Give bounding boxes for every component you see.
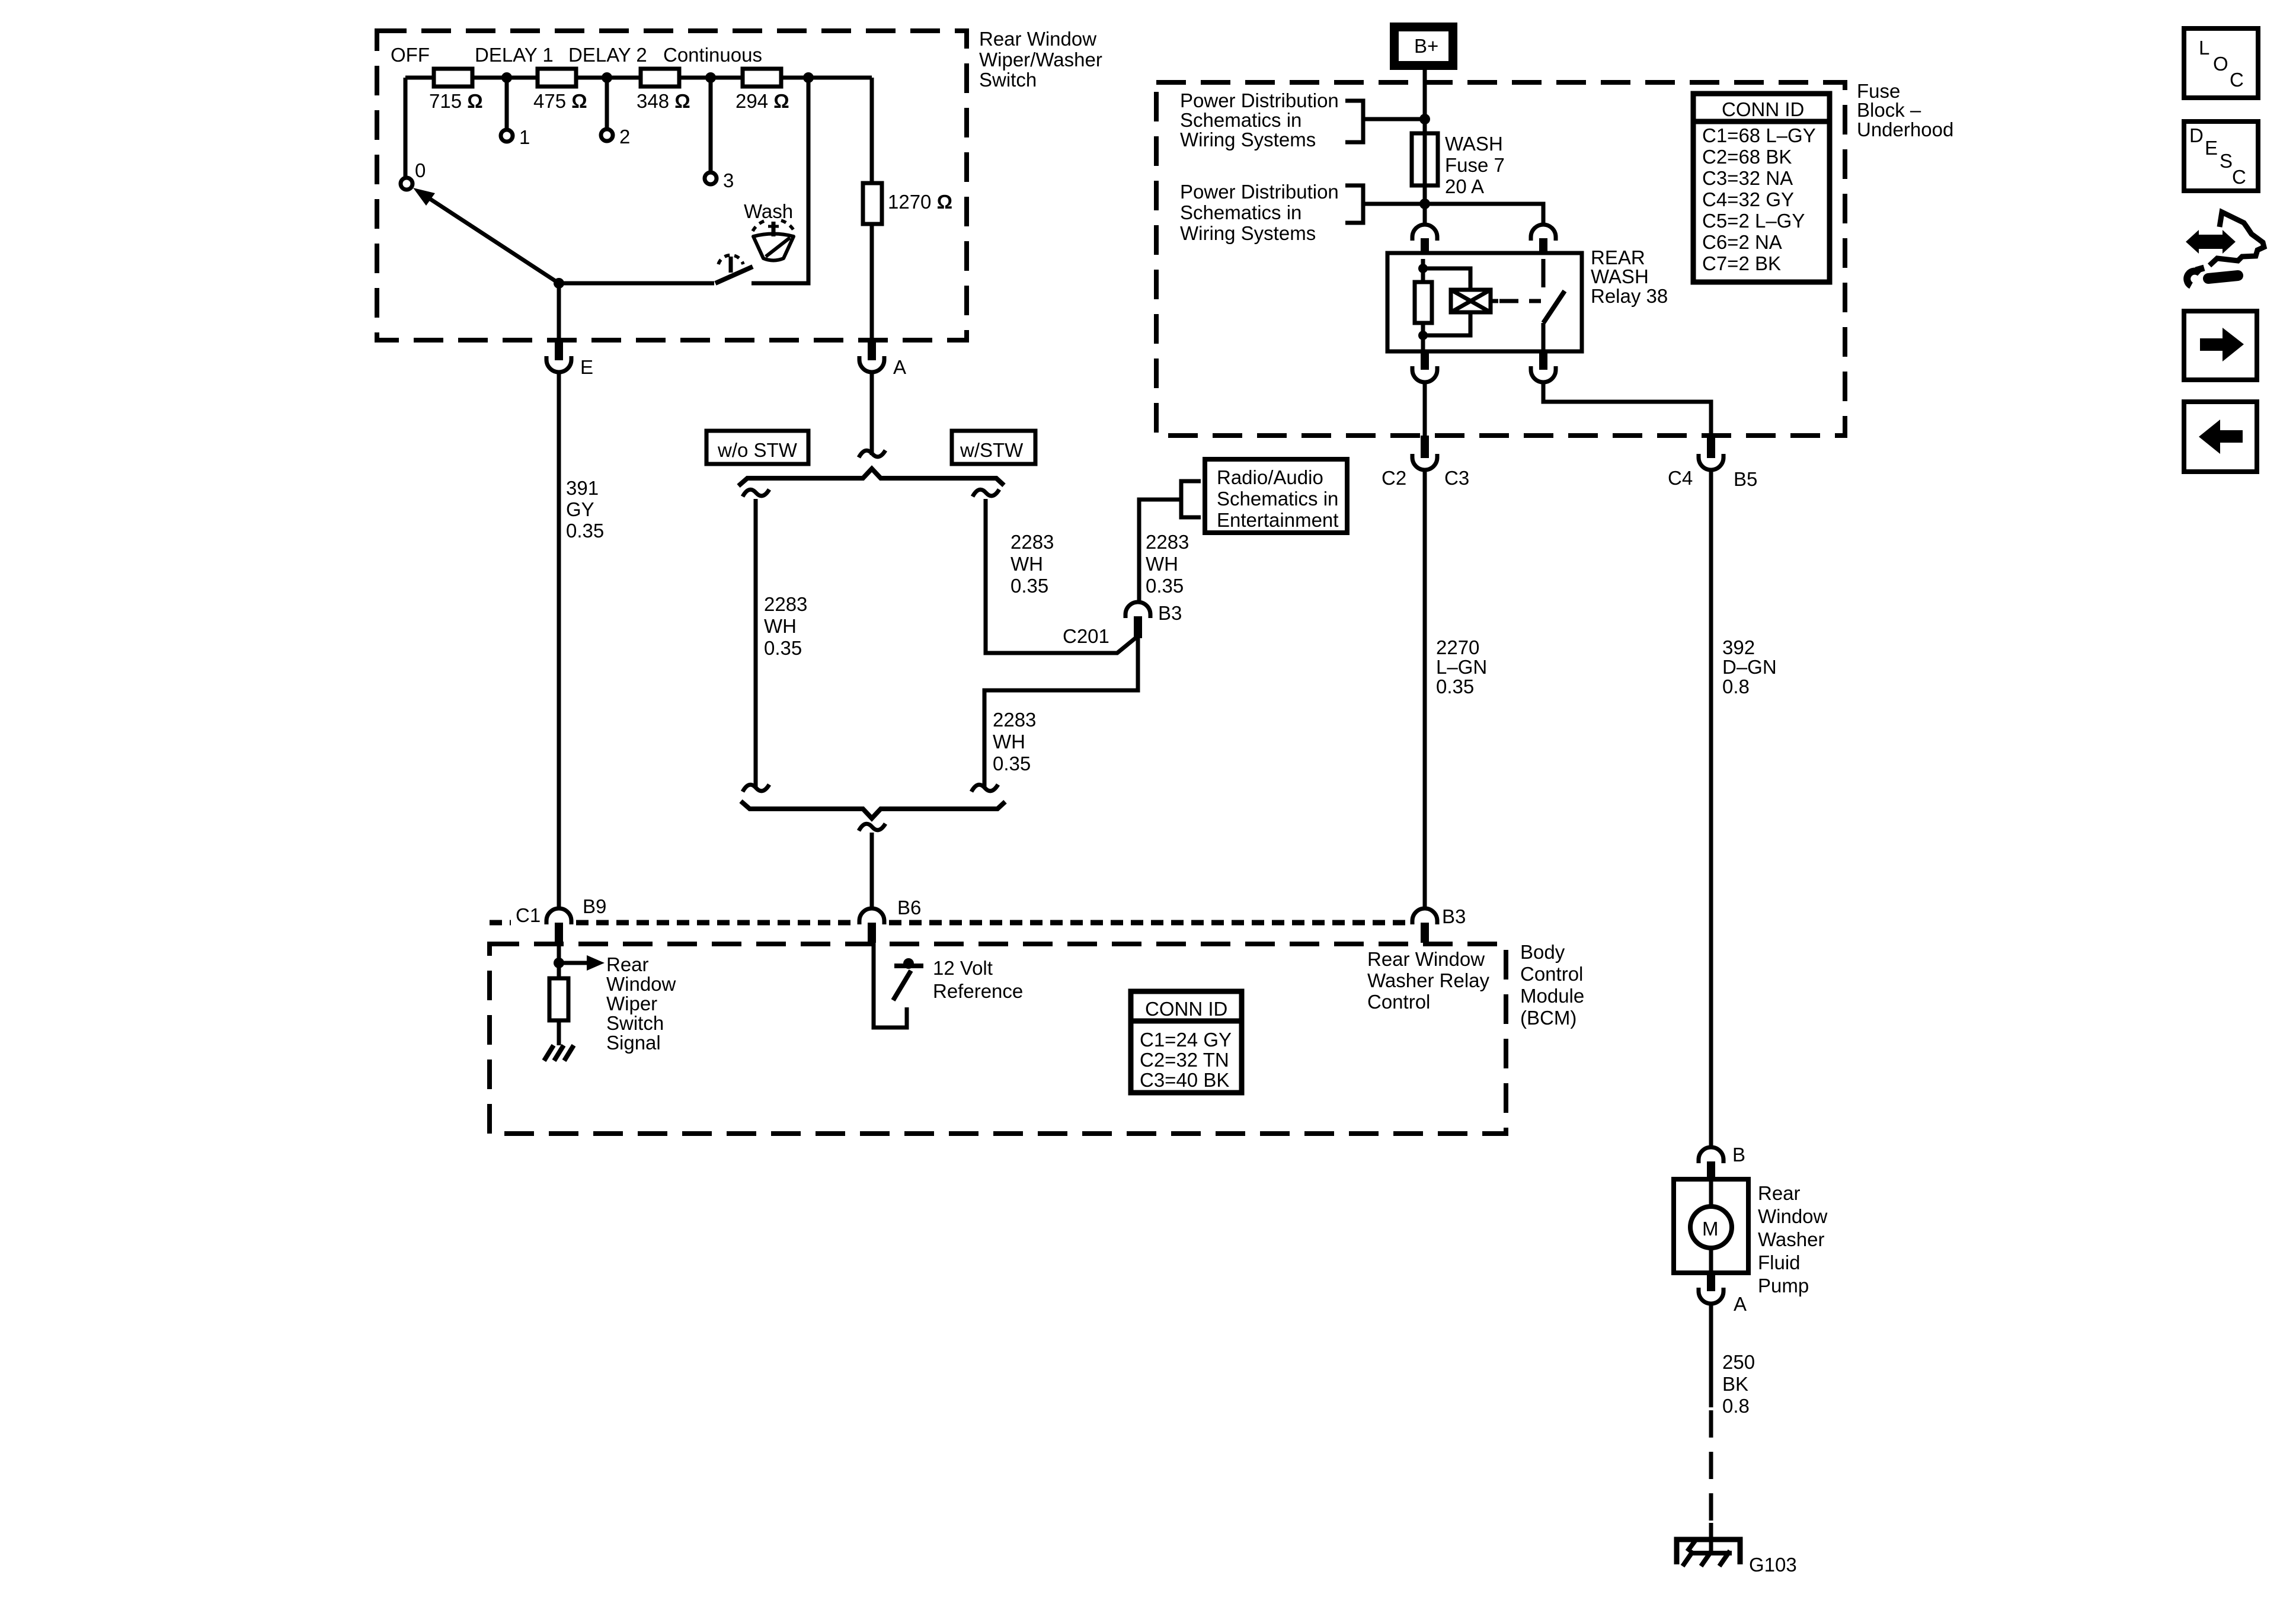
svg-text:Pump: Pump — [1758, 1275, 1809, 1297]
wash switch lever (open) — [715, 267, 753, 283]
svg-text:WASH: WASH — [1591, 265, 1649, 287]
wire: C2/C3 down to BCM B3 — [1423, 470, 1427, 909]
svg-text:Power Distribution: Power Distribution — [1180, 89, 1339, 111]
wire break squiggle above upper brace — [859, 450, 885, 457]
fuse block underhood box — [1156, 80, 1953, 436]
svg-text:S: S — [2220, 150, 2233, 172]
svg-text:C2=68 BK: C2=68 BK — [1702, 146, 1792, 168]
svg-text:A: A — [1734, 1293, 1747, 1315]
connector C4/B5 — [1668, 436, 1757, 490]
rear wash relay 38 box — [1387, 247, 1668, 351]
rotary wiper arm with arrowhead to contact 0 — [413, 188, 559, 283]
svg-text:L: L — [2199, 37, 2209, 59]
svg-text:WH: WH — [764, 615, 797, 637]
back arrow button — [2184, 402, 2257, 472]
connector A (pump) — [1699, 1273, 1747, 1315]
upper option brace — [738, 469, 1004, 486]
svg-text:B6: B6 — [897, 897, 921, 918]
wire: 1270 resistor to connector A — [870, 224, 874, 338]
resistor 715 ohm — [429, 69, 483, 112]
bracket to radio/audio box — [1181, 481, 1201, 517]
svg-text:0.35: 0.35 — [993, 753, 1031, 774]
svg-text:B: B — [1732, 1144, 1745, 1166]
relay switch lever — [1543, 291, 1565, 323]
svg-text:348 Ω: 348 Ω — [637, 90, 690, 112]
svg-text:E: E — [580, 356, 593, 378]
node after 715 with stub to contact 1 — [501, 72, 530, 148]
svg-text:E: E — [2205, 137, 2218, 159]
junction node of wiper arm — [554, 278, 564, 289]
wire label 2283 WH 0.35 (w/STW lower) — [993, 709, 1036, 774]
svg-text:O: O — [2213, 53, 2228, 75]
w/o STW option box — [706, 431, 808, 464]
pump internal wires — [1709, 1179, 1713, 1273]
svg-text:CONN ID: CONN ID — [1722, 98, 1804, 120]
svg-text:0.35: 0.35 — [566, 520, 604, 542]
wire label 2283 WH 0.35 (w/STW upper) — [1011, 531, 1054, 597]
svg-text:Reference: Reference — [933, 980, 1023, 1002]
svg-text:Window: Window — [606, 973, 676, 995]
lower option brace — [741, 801, 1005, 818]
svg-text:250: 250 — [1722, 1351, 1755, 1373]
svg-text:A: A — [893, 356, 906, 378]
svg-text:Switch: Switch — [606, 1012, 664, 1034]
w/STW option box — [952, 431, 1035, 464]
node at B+ tap 1 — [1419, 114, 1430, 124]
svg-text:C: C — [2230, 69, 2244, 91]
wire: C201 stub down and left to w/STW lower branch — [984, 637, 1138, 788]
conn id table (fuse block) — [1693, 94, 1830, 282]
svg-text:B5: B5 — [1734, 468, 1757, 490]
svg-text:C4=32 GY: C4=32 GY — [1702, 188, 1794, 210]
svg-text:WH: WH — [1146, 553, 1178, 575]
svg-text:C7=2 BK: C7=2 BK — [1702, 252, 1781, 274]
svg-text:Schematics in: Schematics in — [1180, 109, 1302, 131]
squiggle at top of w/STW branch — [973, 489, 999, 497]
svg-text:C3=32 NA: C3=32 NA — [1702, 167, 1793, 189]
svg-text:C1=68 L–GY: C1=68 L–GY — [1702, 124, 1816, 146]
relay linkage dashed line — [1499, 299, 1541, 303]
relay switch output pin (bottom right) — [1531, 351, 1556, 382]
svg-text:C5=2 L–GY: C5=2 L–GY — [1702, 210, 1805, 232]
svg-text:C4: C4 — [1668, 467, 1693, 489]
svg-text:Block –: Block – — [1857, 99, 1921, 121]
relay coil output pin (bottom left) — [1412, 351, 1437, 382]
BCM wiper switch signal input — [554, 943, 676, 1054]
wire: brace to BCM B6 — [870, 833, 874, 909]
svg-text:w/STW: w/STW — [960, 439, 1024, 461]
schematic jump icon (arrow and wrench) — [2186, 212, 2264, 286]
svg-text:G103: G103 — [1749, 1554, 1797, 1576]
wire label 391 GY 0.35 — [566, 477, 604, 542]
svg-text:C3: C3 — [1444, 467, 1469, 489]
svg-text:Wiring Systems: Wiring Systems — [1180, 222, 1316, 244]
svg-text:C2: C2 — [1382, 467, 1406, 489]
svg-text:Control: Control — [1520, 963, 1583, 985]
wire: w/STW branch upper segment to C201 — [986, 499, 1137, 653]
internal ground hashes — [544, 1045, 574, 1061]
connector C1 B9 — [516, 895, 606, 943]
svg-text:3: 3 — [723, 169, 734, 191]
svg-text:B3: B3 — [1442, 905, 1466, 927]
svg-text:1270 Ω: 1270 Ω — [888, 191, 952, 213]
svg-text:Wiper: Wiper — [606, 993, 657, 1014]
motor M circle — [1690, 1206, 1732, 1248]
svg-text:2283: 2283 — [1146, 531, 1189, 553]
svg-text:12 Volt: 12 Volt — [933, 957, 993, 979]
svg-text:2283: 2283 — [993, 709, 1036, 731]
wire label 392 D-GN 0.8 — [1722, 636, 1777, 697]
svg-text:DELAY 2: DELAY 2 — [568, 44, 647, 66]
rear window wiper/washer switch box — [377, 28, 1102, 340]
node after 294 — [803, 72, 814, 83]
body control module dashed box — [490, 941, 1584, 1134]
relay switch pin connector (top right) — [1531, 225, 1556, 259]
svg-text:Relay 38: Relay 38 — [1591, 285, 1668, 307]
svg-text:715 Ω: 715 Ω — [429, 90, 483, 112]
svg-text:C: C — [2232, 166, 2246, 188]
svg-text:Rear Window: Rear Window — [1367, 948, 1485, 970]
BCM pull resistor — [549, 978, 568, 1020]
svg-text:2283: 2283 — [764, 593, 807, 615]
svg-text:Rear: Rear — [606, 953, 649, 975]
forward arrow button — [2184, 311, 2257, 380]
svg-text:Fuse 7: Fuse 7 — [1445, 154, 1505, 176]
svg-text:M: M — [1702, 1218, 1719, 1240]
node after 348 with stub to contact 3 — [705, 72, 734, 191]
relay coil box with X — [1451, 290, 1498, 312]
squiggle below lower brace — [859, 824, 885, 831]
connector E (switch pin) — [546, 338, 593, 378]
svg-text:Radio/Audio: Radio/Audio — [1217, 466, 1323, 488]
svg-text:294 Ω: 294 Ω — [736, 90, 789, 112]
wire: junction to wash switch pivot — [559, 281, 714, 286]
wiper blade icon — [753, 220, 794, 261]
wash switch fixed contact wire to ladder end — [752, 78, 808, 283]
svg-text:2: 2 — [619, 126, 630, 148]
svg-text:D–GN: D–GN — [1722, 656, 1777, 678]
LOC icon button — [2184, 28, 2258, 98]
svg-text:C3=40 BK: C3=40 BK — [1140, 1069, 1229, 1091]
svg-text:1: 1 — [519, 126, 530, 148]
wire: relay switch output right and down to C4/B5 — [1543, 383, 1711, 436]
squiggle at top of w/o STW branch — [743, 489, 769, 497]
relay switch contact wires — [1542, 259, 1546, 351]
svg-text:0.35: 0.35 — [1011, 575, 1048, 597]
wire: pump A down — [1709, 1305, 1713, 1407]
node after 475 with stub to contact 2 — [601, 72, 630, 148]
svg-text:Schematics in: Schematics in — [1217, 488, 1338, 510]
12 volt reference circuit — [874, 943, 1023, 1028]
svg-text:B+: B+ — [1414, 35, 1438, 57]
wire: ladder to 1270 resistor — [870, 78, 874, 183]
svg-text:Underhood: Underhood — [1857, 119, 1953, 140]
svg-text:L–GN: L–GN — [1436, 656, 1487, 678]
svg-text:Module: Module — [1520, 985, 1584, 1007]
dashed ground wire — [1709, 1410, 1713, 1523]
connector C2/C3 — [1382, 436, 1469, 489]
svg-text:0.8: 0.8 — [1722, 676, 1750, 697]
contact 0 — [401, 159, 426, 190]
svg-text:WASH: WASH — [1445, 133, 1503, 155]
node at B+ tap 2 — [1419, 199, 1430, 209]
svg-text:0.8: 0.8 — [1722, 1395, 1750, 1417]
connector A (switch pin) — [859, 338, 906, 378]
svg-text:B3: B3 — [1158, 602, 1182, 624]
wire: relay coil output to C2/C3 — [1423, 383, 1427, 436]
svg-text:OFF: OFF — [391, 44, 430, 66]
relay internal node top — [1418, 264, 1428, 273]
svg-text:Wiring Systems: Wiring Systems — [1180, 129, 1316, 151]
svg-text:Washer Relay: Washer Relay — [1367, 969, 1490, 991]
connector B (pump) — [1699, 1144, 1745, 1181]
relay internal node bottom — [1418, 331, 1428, 340]
svg-text:GY: GY — [566, 498, 594, 520]
DESC icon button — [2184, 121, 2258, 191]
B+ power symbol — [1390, 23, 1457, 70]
wire: junction down to connector E — [557, 283, 561, 338]
connector C201 B3 (dome and stub) — [1063, 602, 1182, 647]
resistor 1270 ohm — [863, 183, 952, 224]
relay resistor — [1415, 282, 1432, 323]
connector B3 (BCM) — [1412, 905, 1466, 943]
svg-text:Switch: Switch — [979, 69, 1037, 91]
svg-text:2270: 2270 — [1436, 636, 1479, 658]
svg-text:Rear: Rear — [1758, 1182, 1801, 1204]
svg-text:D: D — [2189, 124, 2204, 146]
svg-text:DELAY 1: DELAY 1 — [475, 44, 554, 66]
svg-text:C1=24 GY: C1=24 GY — [1140, 1029, 1232, 1051]
power distribution reference 1 — [1180, 89, 1425, 151]
resistor 475 ohm — [533, 69, 587, 112]
wire into ground — [1709, 1523, 1713, 1553]
svg-text:B9: B9 — [583, 895, 606, 917]
svg-text:C2=32 TN: C2=32 TN — [1140, 1049, 1229, 1071]
svg-text:392: 392 — [1722, 636, 1755, 658]
svg-text:Continuous: Continuous — [663, 44, 762, 66]
svg-text:(BCM): (BCM) — [1520, 1007, 1576, 1029]
svg-text:0: 0 — [415, 159, 426, 181]
relay coil pin connector (top left) — [1412, 225, 1437, 259]
wire: A connector down to option brace — [870, 373, 874, 455]
wire label 2283 WH 0.35 (radio branch) — [1146, 531, 1189, 597]
connector B6 — [859, 897, 921, 943]
svg-text:C201: C201 — [1063, 625, 1109, 647]
svg-text:Signal: Signal — [606, 1032, 661, 1054]
svg-text:WH: WH — [993, 731, 1025, 753]
wire: E connector down to BCM C1/B9 — [557, 373, 561, 909]
resistor 294 ohm — [736, 69, 789, 112]
wire: B+ down into fuse block — [1423, 70, 1427, 133]
svg-text:Wash: Wash — [744, 200, 793, 222]
wire to internal ground — [557, 1020, 561, 1045]
wire label 2270 L-GN 0.35 — [1436, 636, 1487, 697]
svg-text:Power Distribution: Power Distribution — [1180, 181, 1339, 203]
svg-text:0.35: 0.35 — [1146, 575, 1184, 597]
relay coil branch wires — [1423, 259, 1470, 351]
svg-text:0.35: 0.35 — [1436, 676, 1474, 697]
conn id table (BCM) — [1131, 991, 1242, 1093]
svg-text:2283: 2283 — [1011, 531, 1054, 553]
BCM connector face dotted line — [490, 920, 1408, 926]
svg-text:w/o STW: w/o STW — [717, 439, 798, 461]
svg-text:475 Ω: 475 Ω — [533, 90, 587, 112]
svg-text:Wiper/Washer: Wiper/Washer — [979, 49, 1102, 71]
squiggle at bottom of w/STW branch — [971, 785, 998, 792]
svg-text:Control: Control — [1367, 991, 1430, 1013]
svg-text:BK: BK — [1722, 1373, 1748, 1395]
svg-text:391: 391 — [566, 477, 599, 499]
label rear window washer relay control — [1367, 948, 1490, 1013]
power distribution reference 2 — [1180, 181, 1425, 244]
wash spray icon small — [718, 255, 743, 273]
svg-text:Body: Body — [1520, 941, 1565, 963]
resistor 348 ohm — [637, 69, 690, 112]
svg-text:CONN ID: CONN ID — [1145, 998, 1227, 1020]
svg-text:Window: Window — [1758, 1205, 1828, 1227]
svg-text:0.35: 0.35 — [764, 637, 802, 659]
svg-text:C6=2 NA: C6=2 NA — [1702, 231, 1782, 253]
wire: C4/B5 down to pump B — [1709, 470, 1713, 1148]
svg-text:C1: C1 — [516, 904, 541, 926]
wire: radio branch from C201 dome up and right — [1139, 500, 1181, 600]
wire: w/o STW branch — [754, 499, 758, 788]
rear window washer fluid pump box — [1674, 1179, 1828, 1297]
fuse WASH Fuse 7 20 A — [1412, 133, 1505, 197]
svg-text:Entertainment: Entertainment — [1217, 509, 1338, 531]
ground G103 — [1677, 1539, 1797, 1576]
svg-text:Rear Window: Rear Window — [979, 28, 1096, 50]
svg-text:Washer: Washer — [1758, 1228, 1824, 1250]
wire: tap 2 right to relay switch pin — [1425, 204, 1543, 225]
wire label 250 BK 0.8 — [1722, 1351, 1755, 1417]
svg-text:Schematics in: Schematics in — [1180, 201, 1302, 223]
wire: fuse to relay pin — [1423, 185, 1427, 225]
svg-text:WH: WH — [1011, 553, 1043, 575]
svg-text:20 A: 20 A — [1445, 175, 1484, 197]
wire: resistor ladder bus — [405, 78, 872, 178]
wire label 2283 WH 0.35 (w/o STW) — [764, 593, 807, 659]
svg-text:Fluid: Fluid — [1758, 1251, 1801, 1273]
squiggle at bottom of w/o STW branch — [743, 785, 769, 792]
radio/audio schematics box — [1205, 459, 1347, 533]
